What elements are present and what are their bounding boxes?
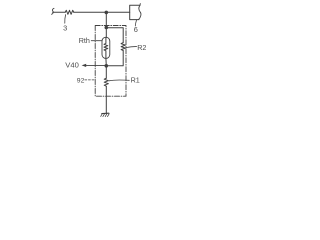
junction node A: [105, 11, 109, 15]
thermistor Rth (capsule outline): [102, 37, 110, 58]
V40 test-point arrow: [85, 64, 106, 66]
dashed leader for label 92: [85, 79, 95, 81]
svg-text:92: 92: [77, 77, 85, 84]
junction node B: [105, 26, 109, 30]
wire node B to R2 branch (right then down): [106, 28, 123, 43]
svg-text:6: 6: [134, 25, 138, 34]
resistor R1 (zigzag): [104, 78, 108, 86]
wire break squiggle (left end): [52, 8, 54, 14]
wire from break to resistor 3: [53, 11, 66, 13]
leader for label 3: [64, 15, 67, 24]
wire node B down to thermistor Rth: [105, 28, 107, 38]
thermistor Rth internal element (wire + zigzag): [104, 38, 108, 59]
wire thermistor to node C: [105, 58, 107, 66]
connector 6 (box with curved right edge): [130, 5, 140, 19]
svg-text:V40: V40: [65, 60, 79, 69]
junction node C: [105, 64, 109, 68]
wire R1 down to ground: [105, 86, 107, 113]
leader for label 6: [135, 20, 136, 26]
leader for label R1: [109, 79, 129, 82]
ground: [102, 112, 109, 114]
wire junction A down to node B: [105, 12, 107, 27]
wire resistor 3 to junction A and on to connector 6: [74, 11, 130, 13]
resistor 3 (zigzag): [65, 10, 74, 14]
svg-text:3: 3: [63, 23, 67, 32]
leader for label Rth: [91, 40, 102, 42]
leader for label R2: [126, 47, 137, 48]
svg-text:R2: R2: [137, 43, 146, 52]
wire node C down to resistor R1: [105, 66, 107, 78]
svg-text:Rth: Rth: [79, 36, 90, 45]
svg-text:R1: R1: [131, 75, 140, 84]
dash-dot enclosure box: [95, 26, 126, 97]
resistor R2 (zigzag): [121, 43, 125, 51]
wire R2 down to bottom corner and left to node C: [106, 51, 123, 66]
